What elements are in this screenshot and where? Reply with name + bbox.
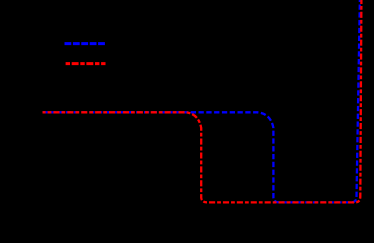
legend blue line <box>65 42 106 45</box>
blue curve <box>43 0 360 202</box>
legend red line <box>66 62 106 65</box>
red curve <box>43 0 362 202</box>
